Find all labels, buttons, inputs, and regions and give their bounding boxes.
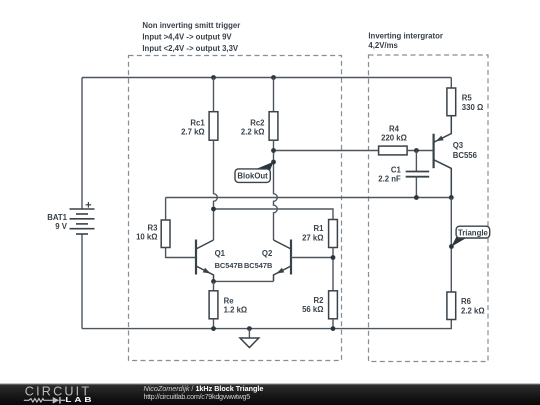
label BAT1 value [47,213,68,231]
svg-text:Input >4,4V -> output 9V: Input >4,4V -> output 9V [142,32,232,41]
label Rc1 value [181,118,205,136]
svg-text:Inverting intergrator: Inverting intergrator [368,31,443,40]
svg-text:56 kΩ: 56 kΩ [302,305,323,314]
svg-text:2.2 kΩ: 2.2 kΩ [461,306,485,315]
resistor R1 [329,220,338,291]
junction dot emitters/Re [211,279,216,284]
wire top rail horizontal [82,77,451,79]
svg-text:220 kΩ: 220 kΩ [381,134,407,143]
footer logo CIRCUIT [25,384,91,398]
svg-text:10 kΩ: 10 kΩ [136,233,157,242]
resistor R2 [329,291,338,329]
svg-text:Rc2: Rc2 [250,118,265,127]
label Rc2 value [241,118,265,136]
junction dot ground tap [247,326,252,331]
svg-text:Q2: Q2 [262,249,273,258]
svg-text:BC547B: BC547B [244,261,272,270]
svg-text:4,2V/ms: 4,2V/ms [368,41,398,50]
smitt trigger section dashed box [129,56,342,361]
resistor R6 [447,292,456,320]
svg-text:BlokOut: BlokOut [237,172,268,181]
resistor Re [209,281,218,328]
battery BAT1 [70,202,95,234]
svg-text:Q3: Q3 [453,141,464,150]
wire B cross-coupling Q1 collector to R1 [214,209,334,220]
label C1 value [378,166,401,184]
wire node BlokOut net to R4 [274,150,379,152]
svg-text:Non inverting smitt trigger: Non inverting smitt trigger [142,21,240,30]
transistor Q1 [196,240,214,282]
label R3 value [136,224,158,242]
svg-text:BC556: BC556 [453,151,478,160]
label Re value [224,297,248,315]
svg-text:1.2 kΩ: 1.2 kΩ [224,306,248,315]
junction dot Q2 base/R1/R2 [331,255,336,260]
svg-text:BC547B: BC547B [215,261,243,270]
svg-text:330 Ω: 330 Ω [462,103,483,112]
annotation: integrator title [368,31,443,50]
label R6 value [461,297,485,315]
wire top supply rail [81,234,83,329]
svg-text:BAT1: BAT1 [47,213,67,222]
svg-text:9 V: 9 V [55,222,68,231]
svg-text:R3: R3 [148,224,159,233]
wire Rc1 bottom to Q1 collector with hop [214,140,218,240]
wire Q2 base to R1/R2 node [291,257,333,259]
integrator section dashed box [369,55,489,362]
flag label Triangle [451,226,490,247]
label R4 value [381,125,407,143]
label Q1 [215,249,243,270]
resistor R5 [447,78,456,116]
label R2 value [302,296,324,314]
transistor Q2 [274,240,292,282]
junction dot integrator output [449,195,454,200]
svg-text:R6: R6 [461,297,472,306]
wire left vertical from battery top [81,78,83,210]
junction dot top rail Rc2 [271,75,276,80]
footer logo wire-resistor-diode glyph [24,397,66,404]
junction dot Rc2/R4 [271,148,276,153]
resistor Rc1 [209,78,218,141]
footer title [144,384,264,401]
wire bottom rail [82,320,451,329]
junction dot R2 bottom [331,326,336,331]
label R5 value [462,94,483,113]
svg-text:2.7 kΩ: 2.7 kΩ [181,127,205,136]
junction dot BlokOut anchor [271,160,276,165]
svg-text:2.2 nF: 2.2 nF [378,175,401,184]
svg-text:Q1: Q1 [215,249,226,258]
wire emitters joining [214,280,274,282]
svg-text:Rc1: Rc1 [190,118,205,127]
annotation: smitt trigger title [142,21,240,53]
label Q2 [244,249,273,270]
wire Rc2 bottom to Q2 collector with hops [274,140,278,240]
flag label BlokOut [235,162,274,183]
svg-text:R4: R4 [389,125,400,134]
svg-text:27 kΩ: 27 kΩ [302,233,323,242]
label Q3 [453,141,478,160]
label R1 value [302,224,324,242]
resistor R3 [161,198,196,258]
transistor Q3 [434,116,452,198]
resistor R4 [379,146,434,155]
resistor Rc2 [269,78,278,141]
junction dot C1/wire A [414,195,419,200]
junction dot Triangle anchor [449,244,454,249]
svg-text:R1: R1 [314,224,325,233]
footer bar [0,384,540,405]
svg-text:C1: C1 [391,166,402,175]
svg-text:http://circuitlab.com/c79kdgvw: http://circuitlab.com/c79kdgvwwtwg5 [144,392,251,401]
svg-text:2.2 kΩ: 2.2 kΩ [241,127,265,136]
junction dot Q1 collector/wire B [211,207,216,212]
capacitor C1 [406,151,430,198]
svg-text:Re: Re [224,297,235,306]
ground [240,329,259,348]
svg-text:Input <2,4V -> output 3,3V: Input <2,4V -> output 3,3V [142,44,239,53]
junction dot R4/C1 [414,148,419,153]
svg-text:R2: R2 [314,296,325,305]
wire integrator output down to R6 [450,198,452,293]
svg-text:Triangle: Triangle [458,228,489,237]
svg-text:LAB: LAB [65,395,94,403]
wire A feedback (R3 top to integrator output) [166,197,452,199]
junction dot Re bottom [211,326,216,331]
footer logo LAB [65,395,94,403]
svg-text:R5: R5 [462,94,473,103]
junction dot top rail Rc1 [211,75,216,80]
